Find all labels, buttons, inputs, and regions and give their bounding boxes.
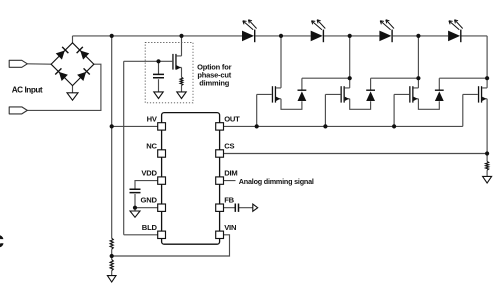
svg-text:FB: FB	[224, 196, 234, 205]
svg-text:HV: HV	[147, 114, 158, 123]
svg-text:CS: CS	[224, 142, 234, 151]
svg-text:DIM: DIM	[224, 169, 237, 178]
svg-text:Analog dimming signal: Analog dimming signal	[239, 177, 314, 186]
svg-text:NC: NC	[146, 142, 157, 151]
svg-text:OUT: OUT	[224, 114, 240, 123]
svg-text:VDD: VDD	[141, 169, 157, 178]
svg-text:GND: GND	[141, 196, 158, 205]
svg-text:c: c	[0, 226, 4, 252]
svg-text:BLD: BLD	[142, 223, 158, 232]
svg-text:dimming: dimming	[199, 79, 229, 88]
svg-text:VIN: VIN	[224, 223, 236, 232]
svg-text:AC Input: AC Input	[12, 85, 43, 94]
